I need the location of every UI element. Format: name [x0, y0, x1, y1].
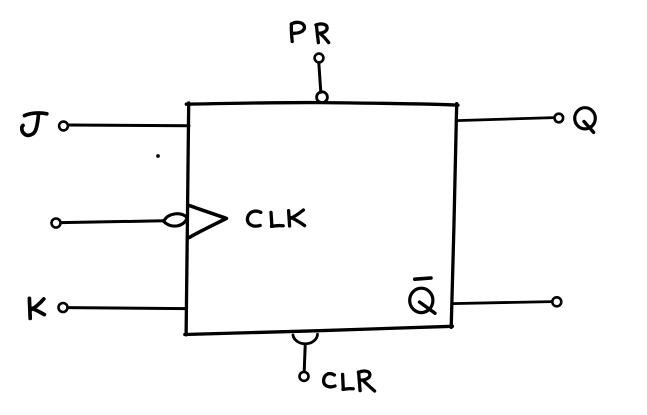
J terminal — [59, 122, 68, 131]
K terminal — [59, 303, 68, 312]
flip-flop body U1 — [185, 103, 458, 335]
wire J — [68, 124, 189, 128]
PR junction bubble on top edge — [317, 92, 328, 103]
CLK bubble (teardrop) — [164, 214, 187, 226]
Qbar terminal — [552, 297, 561, 306]
J label — [22, 113, 47, 135]
CLK edge-trigger wedge — [189, 206, 226, 238]
PR label — [291, 22, 328, 42]
wire PR — [319, 63, 321, 93]
CLK terminal — [52, 219, 61, 228]
CLK label — [247, 210, 304, 226]
wire K — [68, 308, 186, 309]
stray ink dot — [156, 154, 160, 158]
Qbar label (with overbar) — [410, 278, 435, 313]
wire CLK — [61, 221, 164, 223]
CLR junction bump on bottom edge — [293, 334, 318, 344]
Q terminal — [555, 114, 564, 123]
wire Q — [456, 118, 554, 121]
CLR terminal — [300, 372, 309, 381]
K label — [29, 298, 44, 318]
PR terminal — [315, 54, 324, 63]
CLR label — [324, 371, 375, 391]
wire CLR — [304, 346, 305, 372]
wire Qbar — [452, 302, 552, 304]
Q label — [575, 108, 596, 133]
